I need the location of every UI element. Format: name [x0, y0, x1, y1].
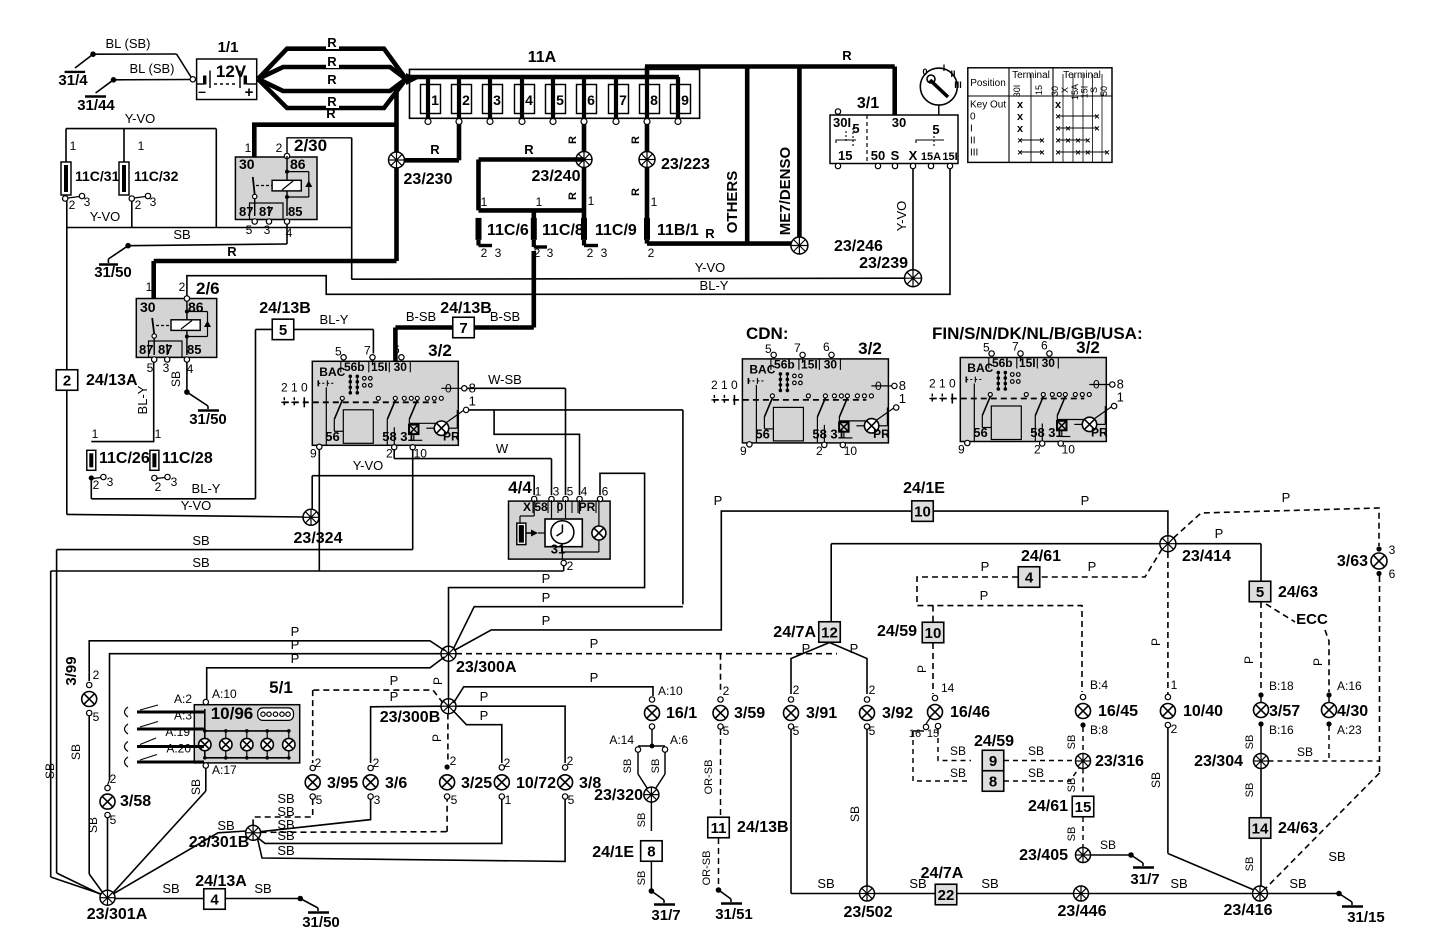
- connector pin 8 24/1E: [592, 841, 662, 862]
- svg-text:II: II: [970, 136, 976, 147]
- svg-text:×: ×: [1065, 136, 1070, 146]
- svg-text:4/30: 4/30: [1337, 703, 1368, 720]
- svg-text:x: x: [1017, 111, 1024, 123]
- svg-text:10/72: 10/72: [516, 775, 556, 792]
- fuse 9 in 11A: [671, 77, 691, 125]
- svg-text:4/4: 4/4: [508, 478, 532, 497]
- svg-text:1: 1: [138, 139, 145, 153]
- junction 23/301B: [189, 818, 261, 851]
- svg-text:30: 30: [824, 357, 838, 371]
- wire battery harness braid (R): [258, 35, 418, 109]
- svg-text:A:2: A:2: [174, 692, 192, 706]
- light switch 3/2 FIN body: [929, 339, 1124, 457]
- svg-text:2: 2: [93, 668, 100, 682]
- svg-text:15I: 15I: [371, 360, 388, 374]
- ground 31/51: [715, 887, 753, 923]
- svg-text:Y-VO: Y-VO: [90, 209, 121, 224]
- svg-text:SB: SB: [1028, 744, 1044, 758]
- svg-text:11C/32: 11C/32: [134, 168, 179, 184]
- wire SB dashed from 3/95 to 23/301B: [253, 791, 313, 826]
- wire P to 5/1 A:10: [207, 651, 445, 699]
- svg-text:9: 9: [681, 92, 689, 108]
- svg-text:×: ×: [1085, 148, 1090, 158]
- svg-text:23/223: 23/223: [661, 156, 710, 173]
- svg-text:30: 30: [239, 156, 255, 172]
- svg-text:SB: SB: [636, 871, 648, 886]
- wire P2 from 23/300A to 3/2 pin 1 leg: [454, 590, 683, 649]
- svg-text:11C/9: 11C/9: [595, 222, 637, 239]
- svg-text:24/1E: 24/1E: [903, 480, 945, 497]
- connector 23/239: [859, 255, 921, 287]
- junction 23/416: [1224, 886, 1273, 919]
- svg-text:3/6: 3/6: [385, 775, 407, 792]
- svg-text:16/1: 16/1: [666, 705, 697, 722]
- connector pin 11 24/13B: [708, 817, 789, 838]
- fuse 3 in 11A: [483, 77, 503, 125]
- svg-text:30: 30: [140, 299, 156, 315]
- lamp 3/92: [860, 683, 914, 738]
- svg-text:I: I: [943, 63, 946, 73]
- svg-text:4: 4: [581, 485, 588, 499]
- wire dashed ECC branch to 4/30: [1266, 604, 1329, 692]
- svg-text:2/6: 2/6: [196, 279, 220, 298]
- svg-text:Terminal: Terminal: [1012, 70, 1050, 81]
- svg-text:SB: SB: [622, 759, 634, 774]
- svg-text:23/502: 23/502: [844, 904, 893, 921]
- svg-text:×: ×: [1055, 148, 1060, 158]
- svg-text:56b: 56b: [344, 360, 365, 374]
- lamp 16/1: [645, 684, 698, 729]
- svg-text:P: P: [590, 636, 599, 651]
- svg-text:SB: SB: [189, 779, 203, 795]
- svg-text:86: 86: [290, 156, 306, 172]
- svg-text:31/4: 31/4: [58, 72, 88, 89]
- svg-text:OR-SB: OR-SB: [701, 851, 713, 886]
- svg-text:30: 30: [1050, 86, 1060, 96]
- wire SB bottom rail: [875, 876, 1340, 894]
- svg-text:2: 2: [281, 380, 288, 394]
- svg-text:3: 3: [601, 246, 608, 260]
- lamp 4/30: [1322, 679, 1369, 760]
- wire SB from 23/304 to 24/63 14: [1244, 769, 1261, 818]
- svg-text:×: ×: [1055, 136, 1060, 146]
- svg-text:3/63: 3/63: [1337, 553, 1368, 570]
- svg-text:1: 1: [146, 280, 153, 294]
- svg-text:3/99: 3/99: [63, 656, 80, 685]
- lamp 3/95: [305, 756, 358, 807]
- wire SB from 23/320 to 24/1E 8: [636, 802, 651, 831]
- junction 23/446: [1058, 886, 1107, 920]
- svg-text:SB: SB: [162, 881, 179, 896]
- wire thick R from 11B/1 to 23/246: [647, 226, 795, 244]
- connector pin 5 24/13B: [259, 300, 311, 340]
- svg-text:SB: SB: [950, 744, 966, 758]
- svg-text:1: 1: [70, 139, 77, 153]
- svg-text:16: 16: [909, 728, 921, 740]
- svg-text:x: x: [1017, 123, 1024, 135]
- svg-text:23/320: 23/320: [594, 787, 643, 804]
- svg-text:SB: SB: [1297, 745, 1313, 759]
- svg-text:5: 5: [147, 361, 154, 375]
- fuse 11C/9: [581, 194, 637, 260]
- svg-text:23/300B: 23/300B: [380, 709, 441, 726]
- svg-text:BL (SB): BL (SB): [105, 36, 150, 51]
- svg-text:×: ×: [1085, 136, 1090, 146]
- svg-text:×: ×: [1094, 112, 1099, 122]
- svg-text:SB: SB: [817, 876, 834, 891]
- svg-text:R: R: [326, 106, 336, 121]
- ignition switch position table: [968, 68, 1112, 163]
- lamp 3/6: [363, 756, 407, 807]
- wire Y-VO left vertical to 23/324: [67, 201, 304, 517]
- lamp 3/57: [1254, 679, 1301, 737]
- svg-text:24/13B: 24/13B: [737, 819, 789, 836]
- svg-text:3/58: 3/58: [120, 793, 151, 810]
- svg-text:SB: SB: [950, 766, 966, 780]
- svg-text:SB: SB: [1066, 827, 1078, 842]
- svg-text:5: 5: [983, 341, 990, 355]
- wire P from 23/414 to 24/7A 12: [831, 544, 1160, 622]
- svg-text:2/30: 2/30: [294, 136, 327, 155]
- svg-text:0: 0: [301, 380, 308, 394]
- svg-text:SB: SB: [1289, 876, 1306, 891]
- wire thick OTHERS drop: [724, 67, 747, 244]
- junction 23/414: [1160, 536, 1231, 565]
- svg-text:31/15: 31/15: [1347, 909, 1385, 926]
- lamp 10/72: [494, 756, 556, 807]
- light switch 3/2 main body: [281, 342, 476, 460]
- lamp 3/99: [63, 656, 103, 893]
- svg-text:11C/8: 11C/8: [542, 222, 584, 239]
- key symbol: [920, 63, 961, 115]
- svg-text:SB: SB: [217, 818, 234, 833]
- svg-text:P: P: [714, 493, 723, 508]
- svg-text:2: 2: [567, 559, 574, 573]
- svg-text:0: 0: [949, 377, 956, 391]
- svg-text:SB: SB: [277, 828, 294, 843]
- wire dashed P from 23/300A to 3/59: [456, 636, 837, 694]
- svg-text:R: R: [327, 35, 337, 50]
- svg-text:P: P: [1242, 656, 1256, 664]
- wire SB from 2/6 pin 4 to ground 31/50: [169, 362, 187, 392]
- wire dashed P from 23/414 down to 10/40: [1149, 552, 1168, 694]
- svg-text:PR: PR: [873, 427, 890, 441]
- wire thick R bus to ignition switch: [645, 48, 895, 115]
- svg-text:1: 1: [505, 793, 512, 807]
- wire SB from 24/63 14 to 23/416: [1244, 839, 1261, 887]
- svg-text:15: 15: [838, 148, 852, 163]
- svg-text:A:19: A:19: [165, 725, 190, 739]
- svg-text:1: 1: [92, 427, 99, 441]
- svg-text:BAC: BAC: [319, 365, 345, 379]
- wire dashed SB from 9 8 boxes to 23/316: [1004, 744, 1079, 781]
- svg-text:A:17: A:17: [212, 763, 237, 777]
- svg-text:11C/6: 11C/6: [487, 222, 529, 239]
- svg-text:11: 11: [711, 820, 727, 837]
- wire OR-SB dashed from 24/13B 11 to ground 31/51: [701, 838, 719, 890]
- fuse 11C/32: [119, 139, 179, 212]
- svg-text:III: III: [970, 148, 978, 159]
- svg-text:×: ×: [1104, 148, 1109, 158]
- svg-text:×: ×: [1017, 136, 1022, 146]
- svg-text:SB: SB: [43, 763, 57, 779]
- fuse 11C/6: [476, 195, 529, 260]
- svg-text:58: 58: [382, 429, 396, 444]
- connector pin 4 24/13A: [195, 873, 247, 909]
- svg-text:23/316: 23/316: [1095, 753, 1144, 770]
- svg-text:0: 0: [922, 67, 927, 77]
- svg-text:P: P: [981, 559, 990, 574]
- svg-text:3: 3: [493, 92, 501, 108]
- svg-text:4: 4: [187, 362, 194, 376]
- wire P to 3/6: [371, 689, 441, 763]
- wire BL-Y from 24/13B 5 to 3/2 pin 7: [294, 312, 373, 354]
- svg-text:23/230: 23/230: [404, 171, 453, 188]
- wire funnel A:14 A:6 to 23/320: [609, 729, 688, 791]
- svg-text:4: 4: [525, 92, 533, 108]
- svg-text:30: 30: [892, 115, 906, 130]
- svg-text:SB: SB: [192, 533, 209, 548]
- svg-text:Y-VO: Y-VO: [695, 260, 726, 275]
- svg-text:2: 2: [462, 92, 470, 108]
- wire P link 23/300A to 23/300B: [431, 661, 449, 699]
- svg-text:9: 9: [310, 446, 317, 460]
- svg-text:BL-Y: BL-Y: [192, 481, 221, 496]
- svg-text:OTHERS: OTHERS: [724, 171, 741, 234]
- svg-text:R: R: [524, 142, 534, 157]
- battery 1/1 12V: [190, 39, 257, 101]
- svg-text:5: 5: [765, 342, 772, 356]
- svg-text:24/1E: 24/1E: [592, 844, 634, 861]
- svg-text:1: 1: [1117, 390, 1124, 405]
- wire SB from 2/30 pin 85 to ground 31/50: [128, 224, 287, 246]
- svg-text:2: 2: [723, 684, 730, 698]
- svg-text:SB: SB: [173, 227, 190, 242]
- connector pin 10 24/59: [877, 622, 944, 643]
- svg-text:58: 58: [1030, 425, 1044, 440]
- svg-text:P: P: [1088, 559, 1097, 574]
- svg-text:3/92: 3/92: [882, 705, 913, 722]
- svg-text:5: 5: [110, 813, 117, 827]
- svg-text:85: 85: [288, 204, 302, 219]
- svg-text:58: 58: [812, 426, 826, 441]
- wire SB from 3/8 to 23/301B: [258, 799, 566, 861]
- svg-text:×: ×: [1055, 124, 1060, 134]
- wire P from 23/300B to 10/72: [453, 708, 502, 763]
- svg-text:×: ×: [1075, 148, 1080, 158]
- svg-text:9: 9: [958, 443, 965, 457]
- light switch 3/2 CDN body: [711, 340, 906, 458]
- svg-text:2: 2: [929, 377, 936, 391]
- svg-text:×: ×: [1055, 112, 1060, 122]
- svg-text:SB: SB: [1028, 766, 1044, 780]
- svg-text:A:10: A:10: [212, 687, 237, 701]
- junction 23/304: [1194, 753, 1268, 770]
- svg-text:SB: SB: [1149, 772, 1163, 788]
- svg-text:6: 6: [393, 342, 400, 356]
- wire BL (SB) from 31/44 to battery: [114, 61, 191, 80]
- svg-text:P: P: [850, 641, 859, 656]
- svg-text:56b: 56b: [992, 356, 1013, 370]
- wire P split to 3/91 and 3/92: [791, 641, 867, 694]
- connector pin 14 24/63: [1249, 818, 1318, 839]
- svg-text:87: 87: [139, 342, 153, 357]
- wire BL (SB) from 31/4 to battery: [93, 36, 191, 77]
- connector pin 9 24/59: [974, 733, 1014, 771]
- svg-text:2: 2: [1171, 722, 1178, 736]
- lamp 3/58: [86, 772, 151, 890]
- svg-text:3/1: 3/1: [857, 95, 879, 112]
- svg-text:2: 2: [648, 246, 655, 260]
- svg-text:14: 14: [1252, 820, 1269, 837]
- lamp 16/46: [909, 681, 990, 740]
- svg-text:56: 56: [325, 429, 339, 444]
- svg-text:ECC: ECC: [1296, 611, 1328, 628]
- svg-text:SB: SB: [86, 817, 100, 833]
- svg-text:2: 2: [179, 280, 186, 294]
- svg-text:6: 6: [1041, 339, 1048, 353]
- svg-text:1: 1: [155, 427, 162, 441]
- connector 23/223: [639, 152, 710, 174]
- svg-text:P: P: [1081, 493, 1090, 508]
- svg-text:S: S: [1089, 87, 1099, 93]
- svg-text:B:16: B:16: [1269, 723, 1294, 737]
- svg-text:P: P: [291, 651, 300, 666]
- fuse 11C/8: [531, 195, 584, 260]
- svg-text:R: R: [227, 244, 237, 259]
- svg-text:8: 8: [650, 92, 658, 108]
- svg-text:3: 3: [1389, 543, 1396, 557]
- instrument cluster 5/1 10/96: [194, 678, 299, 763]
- svg-text:0: 0: [731, 378, 738, 392]
- svg-text:SB: SB: [1244, 735, 1256, 750]
- svg-text:II: II: [950, 69, 955, 79]
- svg-text:11B/1: 11B/1: [657, 222, 699, 239]
- connector pin 8 24/59: [982, 771, 1004, 792]
- wire dashed SB from 23/304 via 4/30 leg: [1269, 745, 1380, 761]
- svg-text:7: 7: [619, 92, 627, 108]
- svg-text:2: 2: [135, 198, 142, 212]
- pin A:10 of 5/1: [203, 687, 237, 705]
- svg-text:SB: SB: [1066, 735, 1078, 750]
- svg-text:2: 2: [711, 378, 718, 392]
- svg-text:24/59: 24/59: [974, 733, 1014, 750]
- svg-text:1: 1: [1171, 678, 1178, 692]
- svg-text:24/13B: 24/13B: [259, 300, 311, 317]
- junction 23/301A: [87, 890, 148, 923]
- svg-text:23/246: 23/246: [834, 238, 883, 255]
- svg-text:2: 2: [93, 478, 100, 492]
- wire thick R from fuse 2 to 23/230: [402, 124, 459, 160]
- svg-text:7: 7: [364, 343, 371, 357]
- svg-text:CDN:: CDN:: [746, 324, 789, 343]
- svg-text:SB: SB: [650, 759, 662, 774]
- svg-text:Position: Position: [970, 78, 1006, 89]
- svg-text:B-SB: B-SB: [406, 309, 436, 324]
- connector pin 15 24/61: [1028, 796, 1094, 817]
- svg-text:Y-VO: Y-VO: [353, 458, 384, 473]
- fuse 11B/1: [644, 195, 699, 260]
- wire P3 from 23/300A to 24/1E 10 and 23/414: [454, 493, 1168, 651]
- svg-text:2: 2: [63, 372, 71, 389]
- svg-text:12: 12: [821, 624, 838, 641]
- svg-text:X: X: [523, 500, 531, 514]
- svg-text:31/44: 31/44: [77, 97, 115, 114]
- wire W-SB from 3/2 pin 8 to 4/4 pin 5: [467, 372, 566, 495]
- svg-text:1: 1: [939, 377, 946, 391]
- junction 23/316: [1076, 753, 1145, 770]
- wire P1 from 23/300A to 4/4 pin 6: [449, 473, 645, 646]
- svg-text:P: P: [1149, 638, 1163, 646]
- junction 23/405: [1019, 847, 1090, 864]
- svg-text:6: 6: [587, 92, 595, 108]
- clock 4/4: [508, 478, 610, 573]
- svg-text:56: 56: [755, 426, 769, 441]
- svg-text:24/61: 24/61: [1021, 548, 1061, 565]
- svg-text:SB: SB: [1170, 876, 1187, 891]
- svg-text:15I: 15I: [942, 151, 957, 163]
- svg-text:15I: 15I: [1080, 86, 1090, 99]
- svg-text:15A: 15A: [1070, 84, 1080, 100]
- fuse 1 in 11A: [421, 77, 441, 125]
- svg-text:W: W: [496, 441, 509, 456]
- svg-text:1: 1: [899, 391, 906, 406]
- wire SB from 23/405 to ground 31/7: [1091, 838, 1160, 888]
- svg-text:22: 22: [938, 887, 955, 904]
- wire SB from 24/1E 8 to ground 31/7: [636, 861, 651, 891]
- svg-text:2: 2: [587, 246, 594, 260]
- wire OR-SB dashed from 3/59 to 24/13B 11: [703, 729, 721, 816]
- svg-text:P: P: [1215, 526, 1224, 541]
- svg-text:P: P: [480, 689, 489, 704]
- svg-text:30I: 30I: [833, 115, 851, 130]
- svg-text:24/61: 24/61: [1028, 798, 1068, 815]
- svg-text:0: 0: [557, 500, 564, 514]
- svg-text:5: 5: [451, 793, 458, 807]
- wire SB from 10/72 to 23/301B: [258, 799, 502, 843]
- junction 23/502: [844, 886, 893, 921]
- connector pin 5 24/63: [1249, 581, 1318, 602]
- svg-text:31/7: 31/7: [1130, 871, 1159, 888]
- svg-text:×: ×: [1094, 124, 1099, 134]
- wire Y-VO from 3/2 pin 10 to 23/324 and 4/4 pin 1: [312, 449, 534, 550]
- svg-text:SB: SB: [1328, 849, 1345, 864]
- wire Y-VO rail to 23/239: [352, 260, 905, 279]
- lamp 3/25: [440, 754, 493, 807]
- ground 31/50 bottom: [298, 896, 340, 931]
- svg-text:5: 5: [93, 710, 100, 724]
- fuse 7 in 11A: [609, 77, 629, 125]
- ground 31/7 left: [649, 888, 681, 924]
- lamp 10/40: [1160, 678, 1223, 736]
- wire P from 23/414 to 24/63 5: [1176, 526, 1262, 581]
- svg-text:3: 3: [171, 475, 178, 489]
- svg-text:23/416: 23/416: [1224, 902, 1273, 919]
- svg-text:10/40: 10/40: [1183, 703, 1223, 720]
- svg-text:24/59: 24/59: [877, 623, 917, 640]
- junction 23/300A: [441, 646, 517, 676]
- svg-text:R: R: [430, 142, 440, 157]
- svg-text:5: 5: [568, 793, 575, 807]
- svg-text:10: 10: [914, 504, 931, 521]
- svg-text:8: 8: [647, 843, 655, 860]
- fuse 11C/28: [150, 427, 213, 494]
- svg-text:SB: SB: [848, 806, 862, 822]
- svg-text:1: 1: [469, 393, 476, 408]
- wire thick R loop feeding 11C/6 and 11C/8: [479, 142, 585, 218]
- svg-text:2: 2: [450, 754, 457, 768]
- svg-text:24/13A: 24/13A: [195, 873, 247, 890]
